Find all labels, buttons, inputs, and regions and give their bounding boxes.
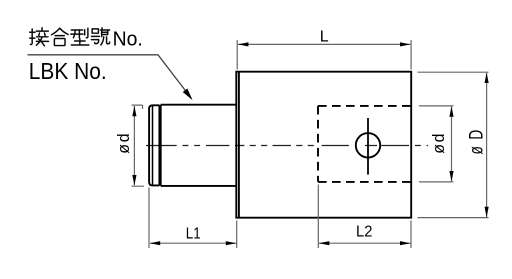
svg-text:øD: øD — [465, 123, 487, 154]
svg-text:No.: No. — [113, 28, 143, 50]
svg-text:L: L — [320, 28, 329, 45]
svg-text:L2: L2 — [356, 223, 372, 241]
svg-text:ød: ød — [114, 132, 133, 154]
svg-text:L1: L1 — [186, 226, 201, 243]
svg-text:ød: ød — [429, 132, 448, 154]
svg-text:LBK No.: LBK No. — [29, 58, 107, 84]
